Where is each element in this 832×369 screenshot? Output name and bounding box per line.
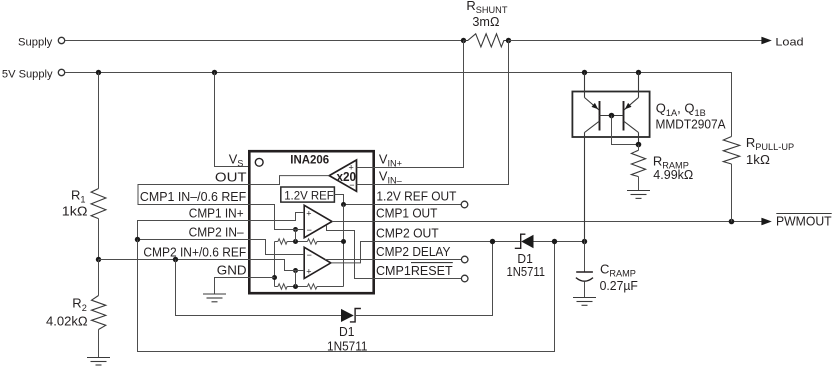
junction dot ramp node at CRAMP xyxy=(582,239,587,244)
wire internal gnd rail vertical xyxy=(274,242,276,287)
svg-text:1N5711: 1N5711 xyxy=(327,339,368,354)
svg-text:CMP1 OUT: CMP1 OUT xyxy=(376,206,438,221)
node 5V Supply terminal xyxy=(2,68,65,80)
wire CMP2 IN- external xyxy=(138,239,250,241)
node 1.2V REF OUT terminal xyxy=(461,201,468,208)
internal resistor row 1 xyxy=(275,239,344,244)
junction dot Q1B collector xyxy=(636,142,642,148)
wire base rail xyxy=(600,115,624,117)
wire CMP2 plus to row2 xyxy=(295,271,297,287)
junction dot CMP2 IN+ to D1 loop xyxy=(173,257,178,262)
wire GND pin to ground xyxy=(215,278,250,295)
wire REF output to REF OUT pin xyxy=(334,195,373,205)
svg-text:+: + xyxy=(349,163,354,173)
svg-text:Supply: Supply xyxy=(18,36,53,48)
wire bottom D1 cathode up to CMP2 OUT row xyxy=(355,242,492,316)
wire VS pin from 5V rail xyxy=(215,73,250,167)
svg-text:−: − xyxy=(307,250,312,260)
wire CMP1 output to CMP1 OUT pin xyxy=(332,221,374,223)
wire CMP2 IN+ down to bottom D1 xyxy=(176,260,342,316)
svg-text:1.2V REF OUT: 1.2V REF OUT xyxy=(376,189,456,204)
svg-text:4.99kΩ: 4.99kΩ xyxy=(653,167,693,182)
wire 5V down to R1 xyxy=(98,73,100,189)
wire VIN+ external to shunt left xyxy=(374,41,464,168)
wire CMP2 output branch to CMP2 OUT pin xyxy=(331,242,374,263)
svg-text:PWMOUT: PWMOUT xyxy=(776,215,832,229)
junction dot 5V to Q1A emitter xyxy=(582,70,587,75)
amplifier x20 xyxy=(329,160,356,191)
transistor Q1A xyxy=(585,73,600,242)
resistor R2 xyxy=(46,296,106,330)
wire VIN+ internal xyxy=(357,167,374,169)
comparator CMP2 xyxy=(304,247,331,278)
svg-text:1N5711: 1N5711 xyxy=(507,264,546,279)
svg-text:INA206: INA206 xyxy=(290,153,329,167)
resistor R1 xyxy=(62,187,106,218)
wire VIN- internal xyxy=(357,184,374,186)
svg-text:CMP2 IN–: CMP2 IN– xyxy=(189,224,245,239)
wire CMP1RESET internal xyxy=(327,225,374,278)
svg-text:CMP2 DELAY: CMP2 DELAY xyxy=(376,244,451,259)
internal resistor row 2 xyxy=(275,284,344,289)
wire CMP1 minus to row1 xyxy=(295,230,297,242)
ground below RRAMP xyxy=(627,191,650,199)
wire CMP1 IN+ external down to CMP2 IN- node xyxy=(138,221,250,240)
junction dot bases xyxy=(609,113,615,119)
junction dot pull-up xyxy=(729,219,735,225)
wire CMP1RESET stub xyxy=(374,278,462,280)
diode D1 bottom xyxy=(327,309,368,354)
svg-text:CMP1 IN+: CMP1 IN+ xyxy=(189,206,244,221)
wire Supply rail right segment to Load xyxy=(509,40,763,42)
resistor RSHUNT xyxy=(464,0,509,47)
svg-text:−: − xyxy=(307,225,312,235)
junction dot 5V to Q1B emitter xyxy=(636,70,641,75)
junction dot shunt right xyxy=(506,38,511,43)
wire CMP2 OUT row to D1 xyxy=(374,241,521,243)
node Supply terminal xyxy=(18,36,65,48)
diode D1 top xyxy=(507,234,546,279)
svg-text:Load: Load xyxy=(775,36,803,48)
ground at GND pin xyxy=(203,294,226,302)
junction dot 5V to VS xyxy=(212,70,217,75)
node CMP2 DELAY terminal xyxy=(461,256,468,263)
node PWMOUT arrow and label xyxy=(761,214,831,229)
wire x20 output to OUT pin xyxy=(249,176,329,185)
junction dot ramp / CMP loop xyxy=(552,239,557,244)
wire Supply rail left segment xyxy=(65,40,464,42)
ground below CRAMP xyxy=(573,298,596,306)
junction dot 5V to R1 divider xyxy=(96,70,101,75)
wire R2 to ground xyxy=(98,330,100,358)
svg-text:1kΩ: 1kΩ xyxy=(62,203,88,218)
wire CMP1 minus input xyxy=(249,205,304,230)
transistor Q1 package box xyxy=(572,92,649,138)
wire R1 bottom to divider node xyxy=(98,219,100,260)
transistor Q1B xyxy=(624,73,639,145)
op-amp U1 INA206 box xyxy=(249,151,373,293)
svg-text:4.02kΩ: 4.02kΩ xyxy=(46,313,88,328)
svg-text:+: + xyxy=(306,267,311,277)
wire REF vertical to resistor rows xyxy=(343,205,345,287)
1.2V REF box xyxy=(281,187,335,202)
junction dot CMP2 OUT / D1 loop xyxy=(490,239,495,244)
pin 1 circle xyxy=(255,158,263,166)
wire CMP2 DELAY stub xyxy=(374,259,462,261)
svg-text:OUT: OUT xyxy=(215,169,247,184)
wire CMP2 minus input internal xyxy=(249,240,304,255)
svg-text:CMP2 IN+/0.6 REF: CMP2 IN+/0.6 REF xyxy=(143,244,246,259)
comparator CMP1 xyxy=(304,205,332,237)
wire CMP2 plus input internal xyxy=(249,260,304,271)
svg-text:5V Supply: 5V Supply xyxy=(2,68,53,80)
svg-text:CMP2 OUT: CMP2 OUT xyxy=(376,226,439,241)
junction dot shunt left xyxy=(461,38,466,43)
wire divider to R2 xyxy=(98,260,100,296)
wire 1.2V REF OUT stub xyxy=(374,204,462,206)
wire label box around CMP1 IN- label xyxy=(138,185,249,205)
junction dots internal xyxy=(293,239,298,244)
ground below R2 xyxy=(87,358,110,366)
svg-text:3mΩ: 3mΩ xyxy=(472,14,499,29)
junction dot CMP2 IN- node xyxy=(135,237,140,242)
svg-text:MMDT2907A: MMDT2907A xyxy=(656,117,726,132)
wire CMP2 IN- loop to ramp node xyxy=(138,240,555,352)
svg-text:CMP1RESET: CMP1RESET xyxy=(376,263,453,278)
svg-text:1kΩ: 1kΩ xyxy=(746,152,770,167)
svg-text:D1: D1 xyxy=(339,324,354,339)
node divider junction xyxy=(96,257,101,262)
wire internal GND pin tap xyxy=(249,277,275,279)
node CMP1RESET terminal xyxy=(461,275,468,282)
wire 5V rail xyxy=(65,73,732,137)
svg-text:+: + xyxy=(306,208,311,218)
resistor RPULL-UP xyxy=(723,135,794,222)
wire CMP2 delay line to CMP2 DELAY pin xyxy=(325,259,374,261)
wire CMP1 plus input internal xyxy=(249,213,304,221)
wire base to Q1B collector xyxy=(612,116,639,145)
resistor RRAMP xyxy=(631,145,693,191)
wire CMP2 IN+ row xyxy=(99,259,250,261)
wire D1 anode to ramp node xyxy=(534,241,585,243)
svg-text:CMP1 IN–/0.6 REF: CMP1 IN–/0.6 REF xyxy=(140,189,246,204)
wire VIN- external to shunt right xyxy=(374,41,509,185)
svg-text:0.27µF: 0.27µF xyxy=(600,278,638,293)
wire CMP1 OUT to PWMOUT xyxy=(374,221,762,223)
svg-text:1.2V REF: 1.2V REF xyxy=(284,188,334,202)
svg-text:−: − xyxy=(349,180,354,190)
svg-text:GND: GND xyxy=(217,262,247,277)
node Load arrow xyxy=(761,36,803,48)
junction dot REF out xyxy=(341,202,346,207)
capacitor CRAMP xyxy=(576,242,638,298)
